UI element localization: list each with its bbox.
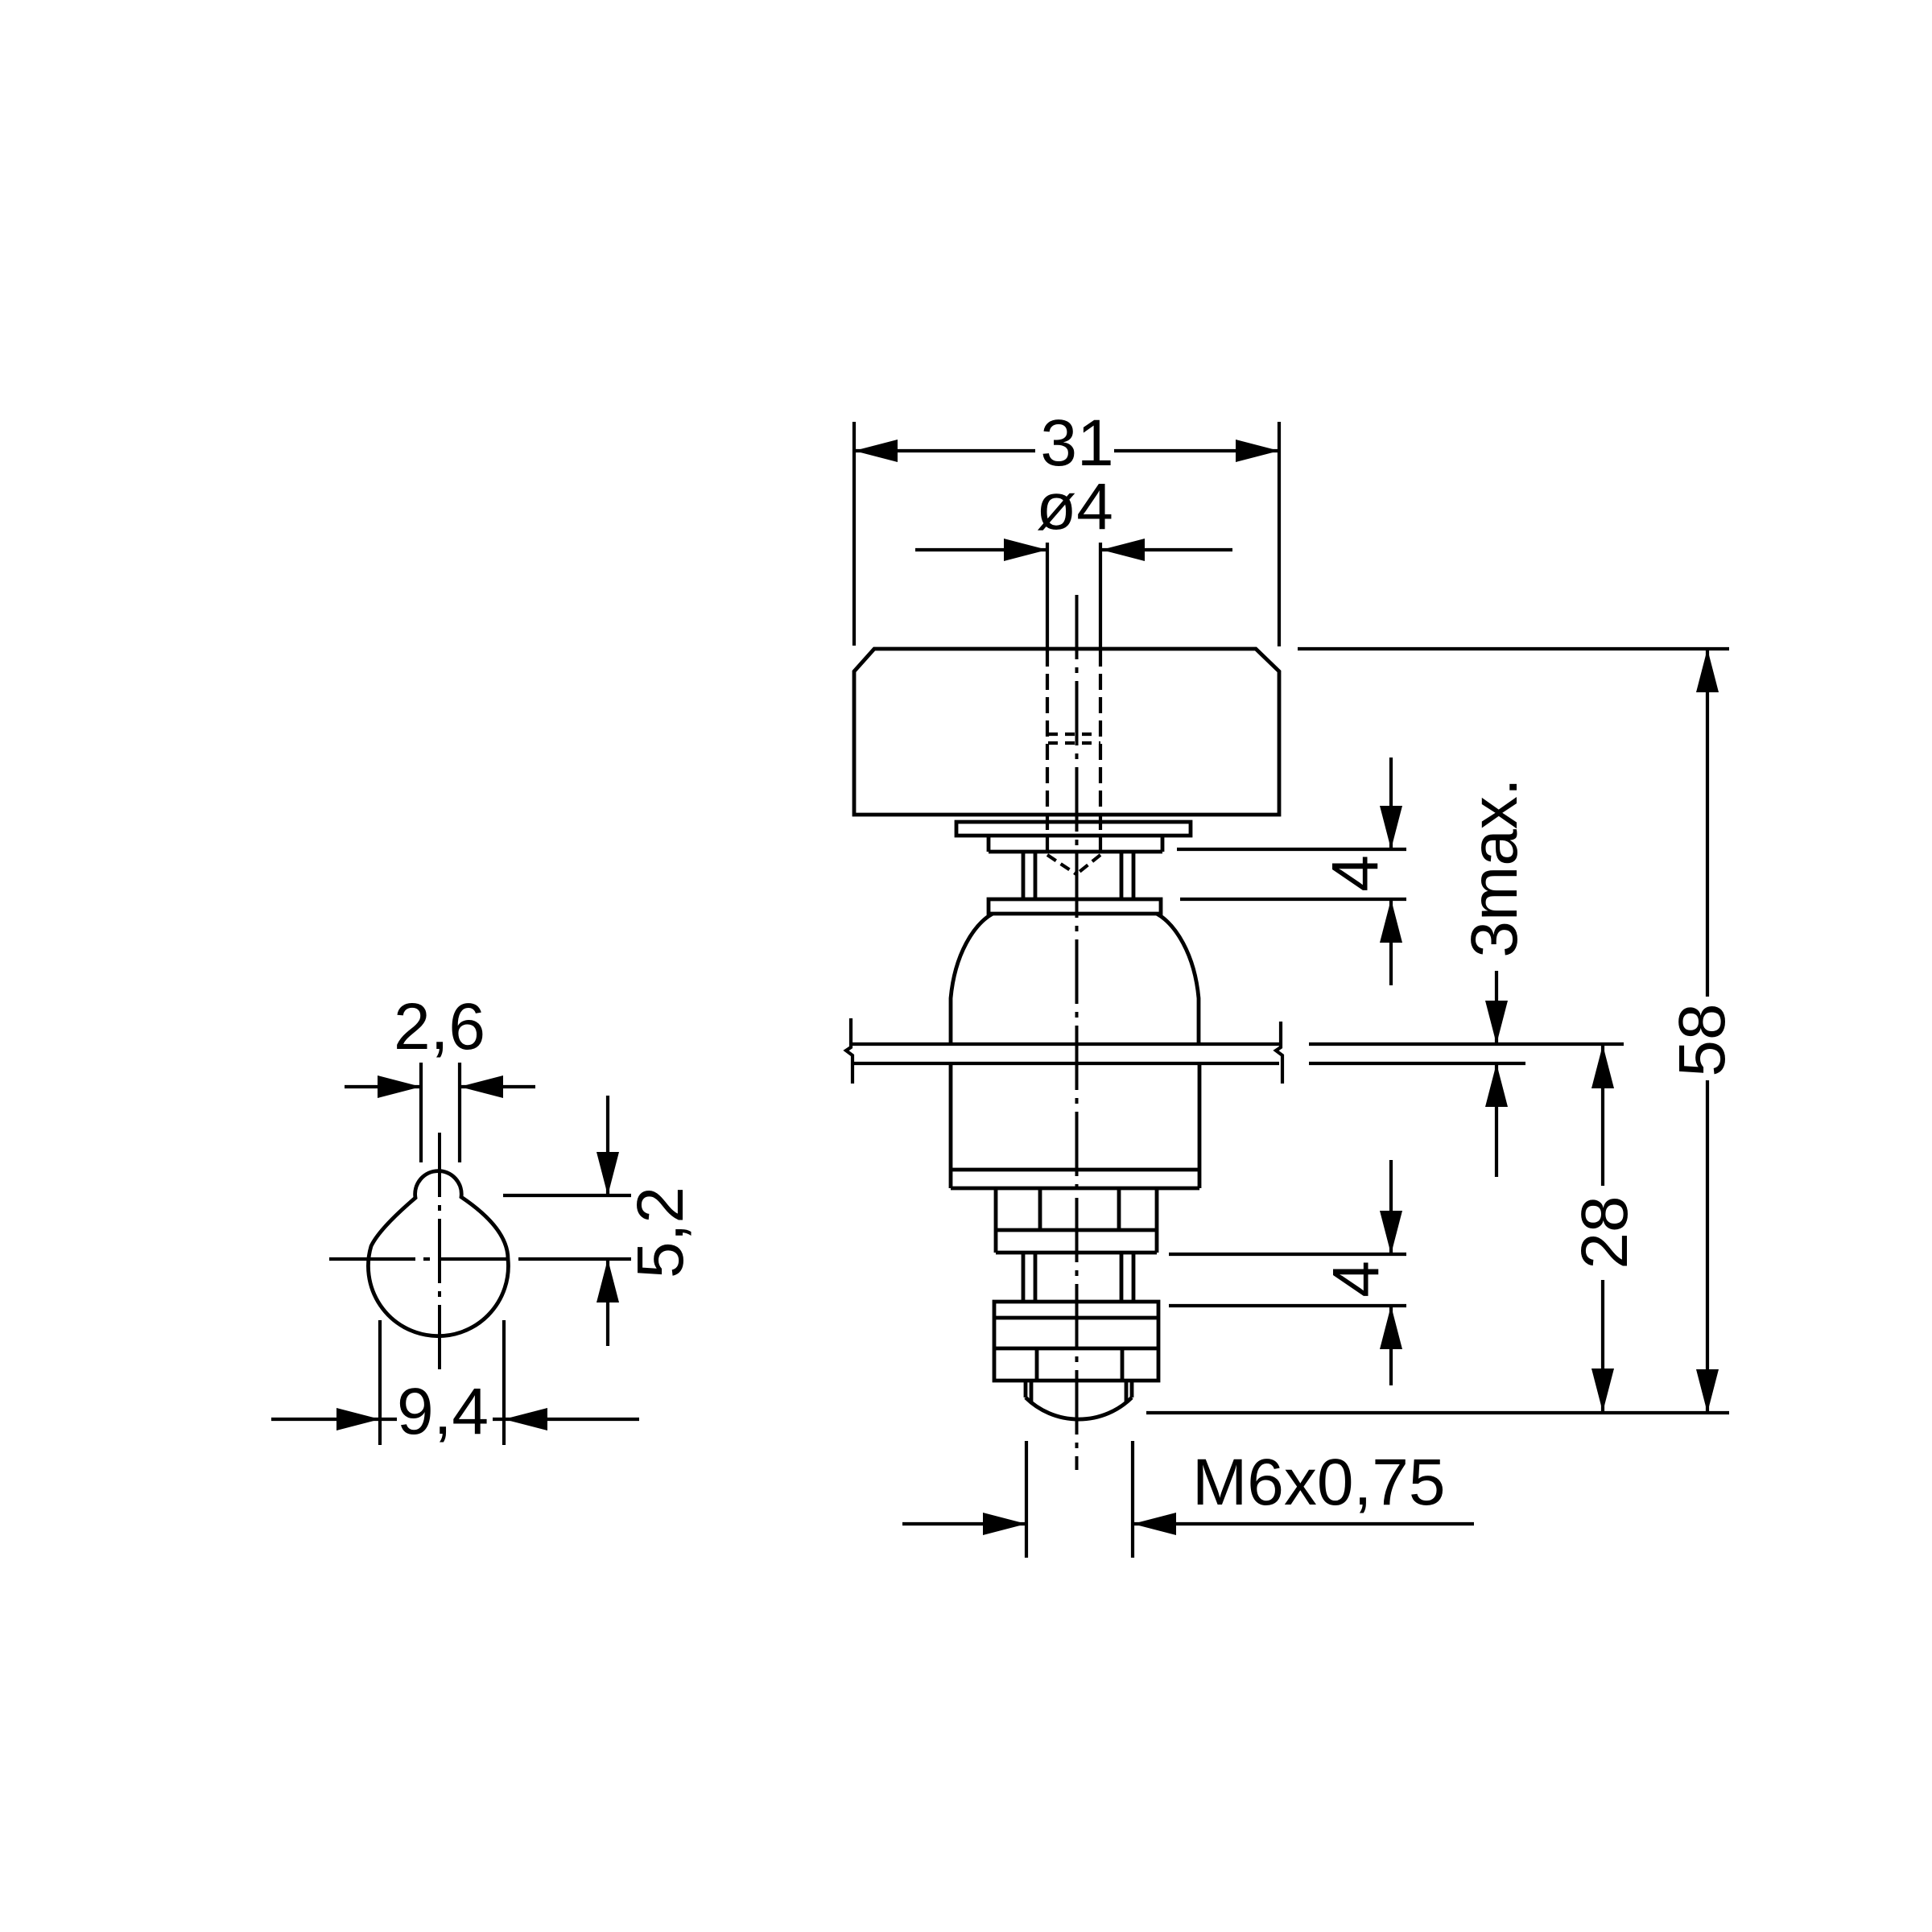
svg-text:3max.: 3max.: [1458, 778, 1531, 957]
svg-text:2,6: 2,6: [394, 990, 485, 1063]
svg-text:9,4: 9,4: [397, 1375, 489, 1448]
svg-text:5,2: 5,2: [624, 1187, 697, 1278]
svg-text:M6x0,75: M6x0,75: [1192, 1446, 1446, 1519]
svg-text:58: 58: [1666, 1003, 1739, 1076]
svg-text:4: 4: [1319, 855, 1392, 892]
svg-text:4: 4: [1319, 1261, 1393, 1298]
svg-text:ø4: ø4: [1036, 470, 1113, 543]
svg-text:31: 31: [1040, 407, 1113, 480]
svg-text:28: 28: [1568, 1195, 1641, 1269]
